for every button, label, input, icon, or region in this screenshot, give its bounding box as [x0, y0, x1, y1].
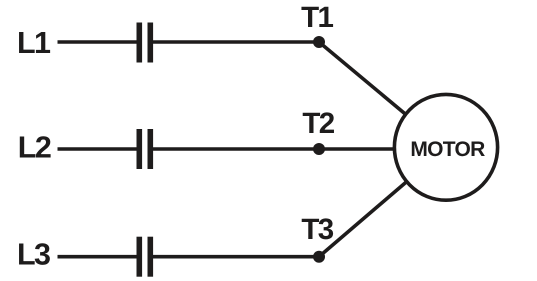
- node T1 (junction dot): [313, 36, 325, 48]
- wire L2 to contact: [58, 147, 138, 151]
- motor M (circle body): [394, 94, 497, 200]
- wire contact to motor through node T2: [153, 147, 446, 151]
- wire node T1 to motor: [319, 42, 446, 148]
- node T2 (junction dot): [313, 143, 325, 155]
- contact (NO) in line L3: [137, 237, 154, 277]
- svg-text:T1: T1: [301, 1, 333, 34]
- node T3 (junction dot): [313, 251, 325, 263]
- svg-text:L2: L2: [18, 130, 51, 164]
- wire L1 to contact: [58, 40, 138, 44]
- svg-text:MOTOR: MOTOR: [410, 138, 485, 161]
- contact (NO) in line L2: [137, 129, 154, 169]
- wire contact to node T3: [153, 255, 319, 259]
- svg-text:T3: T3: [301, 213, 333, 246]
- contact (NO) in line L1: [137, 23, 154, 63]
- wire L3 to contact: [58, 255, 138, 259]
- wire contact to node T1: [153, 40, 319, 44]
- svg-text:L1: L1: [17, 26, 51, 60]
- wire node T3 to motor: [319, 148, 446, 257]
- svg-text:T2: T2: [302, 107, 334, 140]
- svg-text:L3: L3: [17, 237, 50, 271]
